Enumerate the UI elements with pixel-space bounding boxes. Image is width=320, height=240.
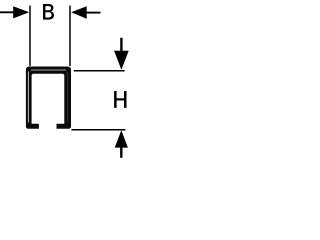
dimension B left arrowhead <box>13 6 29 18</box>
top wall contour seam <box>31 69 66 71</box>
dimension H bottom extension line <box>71 129 125 131</box>
dimension H bottom arrowhead <box>115 130 128 147</box>
label H <box>114 91 126 108</box>
dimension H top extension line <box>74 70 125 72</box>
dimension B left tail line <box>0 11 14 13</box>
left wall contour seam <box>27 72 29 123</box>
channel profile cross-section (inverted U with inward lips) <box>26 67 71 129</box>
dimension B right tail line <box>87 12 101 14</box>
dimension H bottom shaft line <box>120 147 122 158</box>
dimension H top shaft line <box>120 38 122 53</box>
dimension B right extension line <box>69 6 71 67</box>
dimension B left extension line <box>29 6 31 66</box>
dimension B right arrowhead <box>71 6 87 19</box>
label B <box>43 4 54 20</box>
right wall contour seam <box>67 72 69 122</box>
dimension H top arrowhead <box>114 51 129 70</box>
